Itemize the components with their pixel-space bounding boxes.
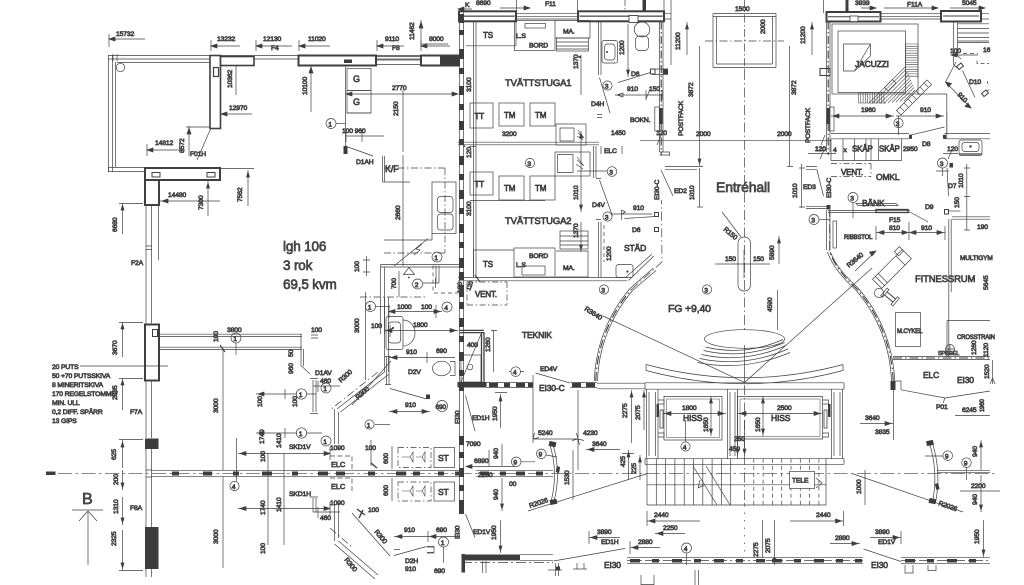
svg-text:600: 600 <box>383 453 390 464</box>
svg-text:1010: 1010 <box>689 185 696 200</box>
svg-text:TS: TS <box>483 31 493 40</box>
valve symbols <box>402 452 425 462</box>
svg-text:BOKN.: BOKN. <box>630 117 651 124</box>
wall bend to D10 <box>954 56 962 69</box>
svg-text:FG +9,40: FG +9,40 <box>668 303 711 315</box>
svg-text:TT: TT <box>475 180 485 189</box>
svg-text:120: 120 <box>457 282 464 293</box>
postfack unit left <box>655 107 660 131</box>
svg-text:00: 00 <box>509 481 517 488</box>
svg-text:3: 3 <box>896 121 900 128</box>
fountain ellipse <box>705 330 785 349</box>
canopy curved wings <box>646 365 843 384</box>
svg-text:1200: 1200 <box>606 246 613 261</box>
svg-text:700: 700 <box>391 278 398 289</box>
crosstrainer area <box>947 321 990 358</box>
svg-text:5890: 5890 <box>769 245 776 260</box>
right hatch band (stairs) <box>906 44 919 78</box>
D4H door leaf <box>600 78 611 114</box>
svg-text:D4V: D4V <box>592 202 605 209</box>
svg-text:TVÄTTSTUGA1: TVÄTTSTUGA1 <box>505 78 571 89</box>
svg-text:3939: 3939 <box>855 0 870 7</box>
svg-text:TM: TM <box>535 111 547 120</box>
svg-text:3000: 3000 <box>213 529 220 544</box>
svg-text:0,2 DIFF. SPÄRR: 0,2 DIFF. SPÄRR <box>52 408 103 416</box>
circle 2 <box>413 279 423 289</box>
svg-text:VENT.: VENT. <box>841 168 863 177</box>
svg-text:ELC: ELC <box>331 482 346 491</box>
flag tick <box>622 210 626 220</box>
left car door slot black <box>657 404 660 417</box>
section zigzag arrow <box>394 239 428 267</box>
svg-text:150: 150 <box>725 256 736 263</box>
circle 3 omkl <box>938 158 948 168</box>
svg-text:D4H: D4H <box>591 101 604 108</box>
svg-text:3: 3 <box>601 287 605 294</box>
centerline vertical <box>744 70 746 330</box>
svg-text:910: 910 <box>404 527 415 534</box>
upper chamfer walls <box>337 372 389 412</box>
svg-text:1950: 1950 <box>974 529 981 544</box>
svg-text:1000: 1000 <box>397 304 412 311</box>
svg-text:6680: 6680 <box>112 217 119 232</box>
svg-text:F7A: F7A <box>130 409 143 416</box>
svg-text:TM: TM <box>535 184 547 193</box>
valve dashed boxes + ST boxes <box>398 448 431 468</box>
circled 9 left pair <box>537 449 547 459</box>
svg-text:ED1V: ED1V <box>878 539 896 546</box>
svg-text:F11A: F11A <box>907 2 923 9</box>
svg-text:9: 9 <box>964 460 968 467</box>
svg-text:4: 4 <box>513 369 517 376</box>
ST boxes <box>434 448 455 468</box>
svg-text:3890: 3890 <box>597 529 612 536</box>
svg-text:50: 50 <box>288 349 295 357</box>
svg-text:910: 910 <box>405 402 416 409</box>
dim top 15732 <box>109 31 145 47</box>
svg-text:3835: 3835 <box>875 429 890 436</box>
D10 jamb 1 <box>957 63 964 70</box>
svg-text:3: 3 <box>527 161 531 168</box>
stair treads solid (left of center) <box>656 459 730 505</box>
svg-text:2880: 2880 <box>638 539 653 546</box>
svg-text:1950: 1950 <box>492 406 499 421</box>
svg-text:1: 1 <box>323 386 327 393</box>
jacuzzi room right wall <box>918 94 947 139</box>
shaft centerlines dash-dot <box>744 0 746 70</box>
svg-text:G: G <box>353 97 360 107</box>
washer cabinet row2 <box>555 152 590 176</box>
svg-text:910: 910 <box>405 566 416 573</box>
svg-text:D10: D10 <box>969 79 981 86</box>
wall window thick box 8000-left <box>421 56 459 66</box>
svg-text:lgh 106: lgh 106 <box>283 239 326 254</box>
wall stub + step at y152 <box>660 152 671 156</box>
svg-text:2250: 2250 <box>663 525 678 532</box>
right curved wall R2026 <box>930 443 938 503</box>
svg-text:ST: ST <box>438 453 449 463</box>
wall piece x314 lower <box>310 497 318 512</box>
svg-text:F01H: F01H <box>190 151 206 158</box>
svg-text:3: 3 <box>850 195 854 202</box>
svg-text:1740: 1740 <box>260 500 267 515</box>
svg-text:170 REGELSTOMME/: 170 REGELSTOMME/ <box>52 391 118 398</box>
black dashes on corridor wall <box>172 472 464 476</box>
D6 stad door (lower) jambs + leaf <box>655 213 659 232</box>
svg-text:BORD: BORD <box>529 253 548 260</box>
svg-text:F15: F15 <box>889 217 901 224</box>
white notch in wall A <box>629 16 638 23</box>
svg-text:460: 460 <box>320 378 331 385</box>
right wall pair from arc <box>937 470 990 472</box>
top-right exterior wall thin lines <box>516 14 989 19</box>
svg-text:100: 100 <box>421 304 432 311</box>
svg-text:100: 100 <box>371 323 382 330</box>
small junction box on wall <box>820 69 830 76</box>
svg-text:1800: 1800 <box>682 405 697 412</box>
door D6 top: jambs <box>651 69 656 74</box>
shower triangle symbol <box>404 268 415 278</box>
bottom wall right of center <box>768 558 863 564</box>
svg-text:11462: 11462 <box>409 22 416 40</box>
kitchen dash-dot work line <box>384 168 445 253</box>
top-left exterior wall double line <box>108 54 421 63</box>
multigym top wall <box>952 217 990 219</box>
svg-text:TT: TT <box>475 112 485 121</box>
stad walls <box>599 222 602 277</box>
svg-text:960: 960 <box>288 363 295 374</box>
EI30 band right of door <box>571 383 598 388</box>
stair up arrows <box>693 466 730 505</box>
svg-text:69,5 kvm: 69,5 kvm <box>283 277 337 292</box>
svg-text:120: 120 <box>656 130 667 137</box>
svg-text:EI30: EI30 <box>604 560 621 570</box>
steps arcs <box>698 353 791 366</box>
svg-text:3640: 3640 <box>592 441 607 448</box>
leader from 20 PUTS <box>80 365 168 367</box>
svg-text:1260: 1260 <box>971 340 978 355</box>
black tick crosses <box>357 509 365 518</box>
svg-text:425: 425 <box>620 456 627 467</box>
svg-text:EI30-C: EI30-C <box>826 178 833 198</box>
TELE box <box>790 472 815 489</box>
corner block fire wall / left wall <box>440 56 460 66</box>
svg-text:OMKL: OMKL <box>876 172 900 182</box>
svg-text:3: 3 <box>605 83 609 90</box>
wall stub above (x642) <box>643 0 647 12</box>
svg-text:8000: 8000 <box>429 36 444 43</box>
door ED2 leaf <box>661 170 673 196</box>
svg-text:L.S: L.S <box>516 262 526 269</box>
EI30-C wall right vertical <box>827 22 831 153</box>
corner block of arc <box>891 381 896 390</box>
svg-text:1: 1 <box>299 392 303 399</box>
circle 3 + leader <box>809 215 819 225</box>
right arc upper straight <box>829 210 831 250</box>
svg-text:120: 120 <box>815 146 826 153</box>
dashed hidden lines right <box>977 61 989 64</box>
svg-text:1090: 1090 <box>330 500 345 507</box>
apartment label lgh 106 <box>283 239 337 292</box>
long corridor wall y470-477 left part <box>152 470 461 476</box>
svg-text:D8: D8 <box>922 141 931 148</box>
svg-text:EI30: EI30 <box>871 560 888 570</box>
svg-text:1960: 1960 <box>861 107 876 114</box>
svg-text:940: 940 <box>493 448 500 459</box>
bottom wall left black segment <box>462 555 520 561</box>
MA table top <box>555 21 590 39</box>
left exterior wall upper <box>109 55 116 172</box>
svg-text:3: 3 <box>609 169 613 176</box>
wall y206-208 + tick <box>806 206 828 208</box>
svg-text:BORD: BORD <box>529 43 548 50</box>
left arc to stad chamfer <box>630 268 656 291</box>
omkl bottom wall <box>828 210 910 212</box>
shower room 400 <box>460 330 484 332</box>
bench seat dark <box>876 210 908 213</box>
svg-text:1410: 1410 <box>276 497 283 512</box>
svg-text:HISS: HISS <box>771 413 791 423</box>
svg-text:D7: D7 <box>948 183 957 190</box>
bench seat small <box>885 80 897 92</box>
svg-text:1410: 1410 <box>276 433 283 448</box>
svg-text:K/F: K/F <box>385 164 399 174</box>
corridor wall vertical pair <box>385 297 389 372</box>
svg-text:12130: 12130 <box>263 36 282 43</box>
svg-text:D9: D9 <box>925 204 934 211</box>
wall stub above (x845) <box>846 0 849 13</box>
window latch blob <box>344 60 352 64</box>
svg-text:EI30: EI30 <box>957 375 974 385</box>
svg-text:HISS: HISS <box>683 413 703 423</box>
svg-text:16: 16 <box>983 47 991 54</box>
svg-text:6245: 6245 <box>962 407 977 414</box>
treadmill rotated <box>870 247 912 289</box>
door ED1V bottom leaf <box>864 549 902 562</box>
fire wall black dash blocks <box>459 14 464 514</box>
kitchen counter right <box>432 182 456 234</box>
wall segment x314 <box>310 379 318 414</box>
svg-text:2660: 2660 <box>395 205 402 220</box>
door F01H leaf <box>197 129 211 160</box>
svg-text:1800: 1800 <box>413 322 428 329</box>
svg-text:690: 690 <box>434 568 445 575</box>
svg-text:2770: 2770 <box>392 85 407 92</box>
postfack unit right <box>830 107 835 131</box>
svg-text:910: 910 <box>627 86 638 93</box>
door ED4V <box>536 373 571 383</box>
svg-text:1: 1 <box>328 121 332 128</box>
left wall pair below <box>146 205 159 324</box>
fitness bottom wall EI30 <box>893 357 990 360</box>
MCYKEL box <box>896 313 921 347</box>
svg-text:2880: 2880 <box>835 535 850 542</box>
svg-text:ED1H: ED1H <box>472 415 490 422</box>
top wall black segment C (right) <box>941 11 981 22</box>
svg-text:ED2: ED2 <box>674 188 687 195</box>
D10 jamb 2 <box>982 90 989 97</box>
divider wall y142-145 <box>458 142 599 145</box>
svg-text:1090: 1090 <box>330 445 345 452</box>
svg-text:2: 2 <box>415 282 419 289</box>
svg-text:TM: TM <box>504 184 516 193</box>
svg-text:2440: 2440 <box>654 512 669 519</box>
circled 9 right pair <box>943 451 953 461</box>
svg-text:EI30: EI30 <box>455 525 462 539</box>
svg-text:ST: ST <box>438 487 449 497</box>
bath divider wall <box>599 22 602 76</box>
BORD table bottom <box>514 248 555 277</box>
D8 door <box>910 127 945 135</box>
svg-text:4: 4 <box>444 305 448 312</box>
svg-text:940: 940 <box>972 494 979 505</box>
svg-text:G: G <box>353 74 360 84</box>
svg-text:690: 690 <box>436 348 447 355</box>
svg-text:1650: 1650 <box>755 417 762 432</box>
svg-text:100: 100 <box>213 331 220 342</box>
circle 3 bath <box>603 81 612 90</box>
washer cabinet row1 <box>556 124 586 145</box>
svg-text:9110: 9110 <box>385 36 399 43</box>
svg-text:810: 810 <box>889 225 900 232</box>
dumbbell icon <box>881 288 900 306</box>
svg-text:3: 3 <box>605 214 609 221</box>
R2026 leaders <box>852 474 963 513</box>
svg-text:7300: 7300 <box>198 195 205 210</box>
svg-text:3100: 3100 <box>466 77 473 92</box>
svg-text:EI30-C: EI30-C <box>539 383 565 393</box>
svg-text:ED1V: ED1V <box>473 529 491 536</box>
svg-text:1310: 1310 <box>113 499 120 514</box>
svg-text:VENT.: VENT. <box>475 290 497 299</box>
svg-text:7562: 7562 <box>237 187 244 202</box>
TM boxes row2 <box>499 176 524 200</box>
svg-text:TEKNIK: TEKNIK <box>522 330 552 340</box>
circle 1 + ticks lower <box>365 420 374 429</box>
door D7 <box>950 163 954 168</box>
MA hatched shelf <box>557 38 589 51</box>
svg-text:SKÅP: SKÅP <box>879 145 900 154</box>
svg-text:5645: 5645 <box>983 275 990 290</box>
D4V door leaf <box>600 180 613 216</box>
left wall pair below F7A <box>146 324 159 438</box>
omkl top wall <box>831 134 990 139</box>
svg-text:100: 100 <box>368 507 379 514</box>
svg-text:2150: 2150 <box>393 101 400 116</box>
wall thin segment <box>376 57 421 65</box>
svg-text:14480: 14480 <box>168 192 187 199</box>
svg-text:5045: 5045 <box>962 0 977 7</box>
svg-text:8572: 8572 <box>179 138 186 153</box>
svg-text:4: 4 <box>684 546 688 553</box>
dim line left <box>256 392 280 396</box>
svg-text:120: 120 <box>947 146 958 153</box>
svg-text:5240: 5240 <box>538 430 553 437</box>
svg-text:8 MINERITSKIVA: 8 MINERITSKIVA <box>52 382 104 389</box>
left wall lower black segment <box>145 527 159 569</box>
top dim ticks <box>517 0 824 13</box>
vestibule top wall right + ED3 <box>806 167 817 170</box>
svg-text:TELE: TELE <box>792 478 809 485</box>
svg-text:100: 100 <box>257 396 264 407</box>
svg-text:1500: 1500 <box>735 6 750 13</box>
svg-text:D2H: D2H <box>405 558 418 565</box>
svg-text:250: 250 <box>734 436 745 443</box>
wall window thick box 11020 <box>299 56 377 66</box>
svg-text:2075: 2075 <box>635 405 642 420</box>
svg-text:120: 120 <box>466 147 473 158</box>
svg-text:190: 190 <box>977 224 988 231</box>
svg-text:4: 4 <box>683 444 687 451</box>
svg-text:1520: 1520 <box>984 364 991 379</box>
svg-text:940: 940 <box>493 489 500 500</box>
svg-text:600: 600 <box>383 485 390 496</box>
toilet top <box>634 22 650 37</box>
door hinge white box in L-wall <box>214 68 219 77</box>
stair outline <box>647 459 826 505</box>
svg-text:225: 225 <box>631 463 638 474</box>
svg-text:910: 910 <box>633 205 644 212</box>
right entrance arc <box>831 252 895 381</box>
materials text block <box>52 364 118 425</box>
left curved wall R2026 <box>550 443 558 504</box>
svg-text:2275: 2275 <box>622 403 629 418</box>
svg-text:9: 9 <box>539 452 543 459</box>
right elevator car <box>738 397 823 440</box>
vestibule top wall left <box>665 167 697 170</box>
svg-text:MA.: MA. <box>563 265 575 272</box>
hatched shelf bottom <box>560 231 588 249</box>
bath sink center <box>386 317 403 350</box>
svg-text:2950: 2950 <box>903 146 918 153</box>
thick L-wall 13232 <box>210 56 254 129</box>
chamfer wall stad SE corner <box>626 254 654 281</box>
svg-text:100: 100 <box>365 445 376 452</box>
svg-text:2500: 2500 <box>777 405 792 412</box>
circle 3 + leader <box>607 167 617 177</box>
svg-text:460: 460 <box>320 515 331 522</box>
svg-text:TVÄTTSTUGA2: TVÄTTSTUGA2 <box>505 216 571 227</box>
dash-dot room line <box>360 296 427 298</box>
svg-text:1010: 1010 <box>573 185 580 200</box>
svg-text:1010: 1010 <box>958 173 965 188</box>
svg-text:11200: 11200 <box>800 26 807 44</box>
thick L-wall 14480: horizontal <box>145 168 220 180</box>
corridor walls top <box>160 334 302 336</box>
svg-text:2075: 2075 <box>765 538 772 553</box>
right car door slot black <box>828 404 831 417</box>
shaft square top center <box>713 14 776 68</box>
svg-text:15732: 15732 <box>116 31 135 38</box>
svg-text:12970: 12970 <box>229 105 248 112</box>
svg-text:150: 150 <box>649 86 660 93</box>
svg-text:690: 690 <box>436 527 447 534</box>
svg-text:BÄNK: BÄNK <box>862 198 885 208</box>
svg-text:1650: 1650 <box>703 417 710 432</box>
svg-text:1260: 1260 <box>485 337 492 352</box>
svg-text:940: 940 <box>972 446 979 457</box>
svg-text:4230: 4230 <box>583 430 598 437</box>
svg-text:1950: 1950 <box>491 525 498 540</box>
circles 1 <box>296 389 306 399</box>
door ED1V in fire wall <box>466 514 476 538</box>
vent duct lines <box>436 266 439 284</box>
svg-text:3200: 3200 <box>502 131 517 138</box>
svg-text:625: 625 <box>111 449 118 460</box>
right corner wall pair going down <box>954 22 958 65</box>
EI30 band to ED4V <box>487 383 534 388</box>
left elevator car <box>664 397 722 441</box>
